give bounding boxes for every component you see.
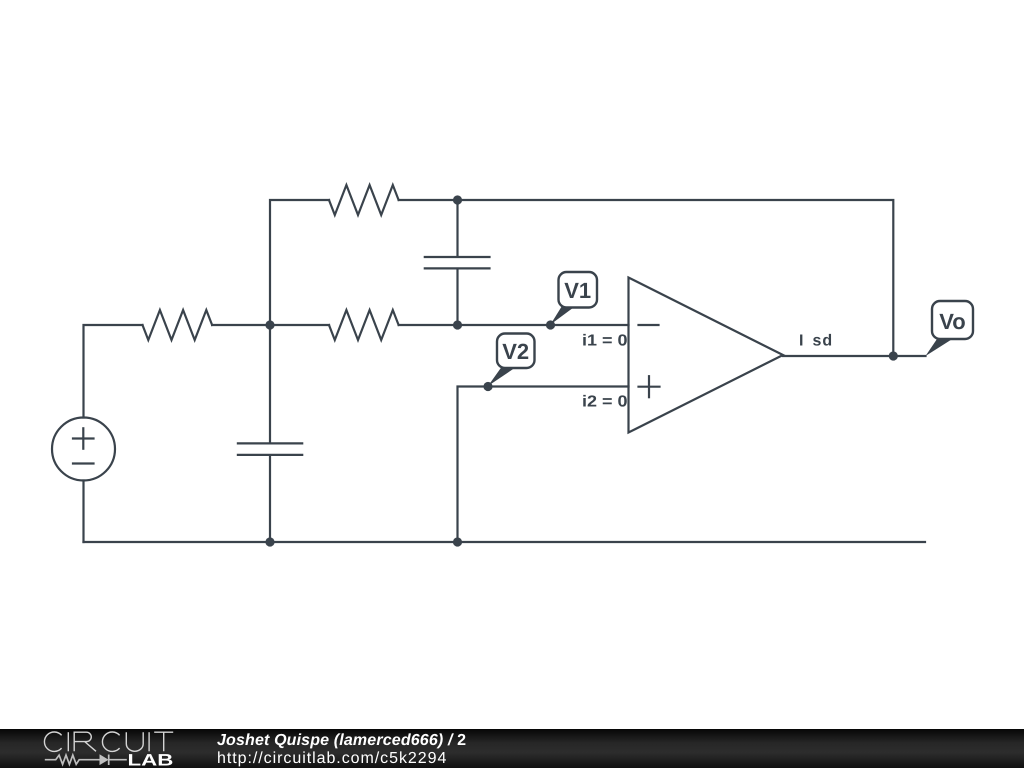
junction node B top [453, 195, 462, 204]
svg-text:V2: V2 [502, 339, 529, 364]
svg-text:LAB: LAB [128, 751, 174, 768]
svg-text:Vo: Vo [939, 309, 965, 334]
svg-text:i2 = 0: i2 = 0 [582, 394, 628, 411]
wire node A to R3 [270, 324, 329, 326]
wire op-amp output [783, 355, 926, 357]
wire source bottom [82, 481, 84, 543]
wire inverting input [458, 324, 629, 326]
junction node C mid [453, 320, 462, 329]
capacitor C1 [425, 200, 490, 325]
junction node V1 probe [546, 320, 555, 329]
wire bottom to non-inverting input [458, 387, 629, 543]
logo CIRCUIT [44, 732, 173, 751]
junction node output [889, 351, 898, 360]
op-amp U1 [629, 278, 784, 433]
wire top rail right [458, 200, 894, 356]
flag V1 [551, 272, 598, 325]
svg-text:i1 = 0: i1 = 0 [582, 333, 628, 350]
flag Vo [926, 301, 974, 356]
resistor R1 [143, 310, 213, 340]
svg-text:Joshet Quispe (lamerced666) /: Joshet Quispe (lamerced666) / 2 [217, 732, 466, 749]
junction node A bottom [265, 537, 274, 546]
flag V2 [488, 334, 535, 387]
wire R2 to node B [399, 199, 458, 201]
logo squiggle [45, 754, 127, 765]
svg-text:http://circuitlab.com/c5k2294: http://circuitlab.com/c5k2294 [217, 750, 447, 767]
wire node A up to top rail [270, 200, 329, 325]
capacitor C2 [238, 325, 302, 542]
junction node A [265, 320, 274, 329]
footer bar [0, 729, 1024, 768]
wire R3 to node C [399, 324, 458, 326]
voltage source V3 [52, 418, 115, 481]
wire source top to left rail [84, 325, 143, 418]
wire R1 to node A [212, 324, 270, 326]
junction node V2 probe [483, 382, 492, 391]
svg-text:V1: V1 [564, 278, 591, 303]
resistor R3 [329, 310, 399, 340]
wire bottom rail [84, 541, 926, 543]
resistor R2 [329, 185, 399, 215]
junction node D bottom [453, 537, 462, 546]
